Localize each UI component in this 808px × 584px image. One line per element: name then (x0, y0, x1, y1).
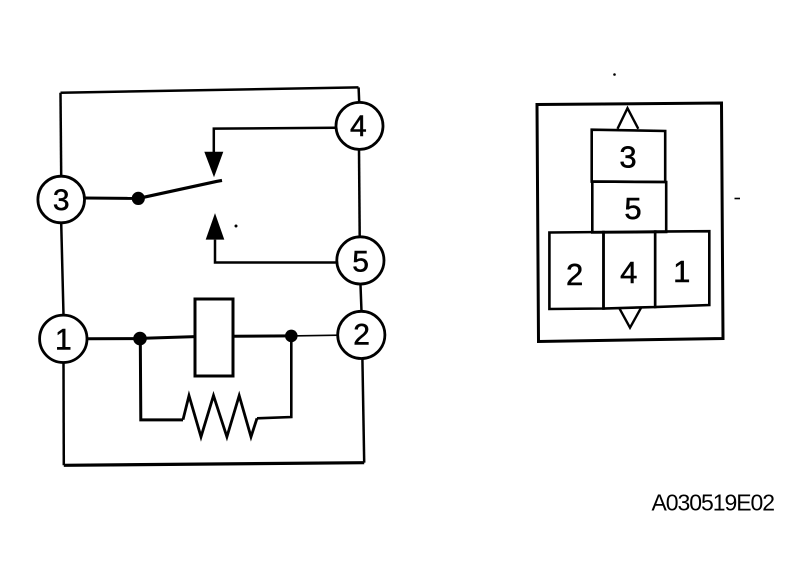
wire left rail middle (61, 223, 63, 315)
svg-text:3: 3 (53, 184, 70, 217)
wire right rail top (357, 87, 360, 102)
wire top rail (61, 87, 359, 92)
switch blade (138, 180, 222, 198)
junction dot right (285, 330, 298, 343)
cavity 3 (592, 130, 666, 182)
arrow up (contact to 5) (206, 213, 225, 240)
svg-text:1: 1 (55, 323, 72, 356)
terminal 3 (38, 176, 85, 223)
wire terminal4 branch (214, 128, 335, 152)
svg-text:2: 2 (353, 319, 370, 352)
cavity 2 (549, 232, 603, 309)
terminal 5 (337, 237, 384, 284)
terminal 4 (336, 102, 383, 149)
svg-text:5: 5 (624, 191, 641, 226)
wire bottom rail (64, 463, 364, 466)
wire resistor branch left (140, 339, 183, 420)
cavity 1 (655, 231, 709, 307)
junction dot (switch common) (132, 192, 145, 205)
svg-text:3: 3 (619, 140, 636, 175)
terminal 2 (338, 311, 385, 358)
wire coil to right junction (233, 334, 291, 337)
svg-text:4: 4 (620, 255, 637, 290)
cavity 5 (592, 182, 666, 233)
svg-text:1: 1 (673, 254, 690, 289)
wire left rail lower (62, 363, 65, 466)
connector arrow down (619, 307, 641, 328)
cavity 4 (604, 232, 656, 309)
wire terminal1 to left junction (87, 337, 140, 340)
terminal 1 (40, 315, 87, 362)
junction dot left (133, 332, 147, 346)
specks (scan noise) (613, 73, 616, 76)
connector outline (537, 103, 723, 342)
relay coil (195, 299, 233, 376)
svg-text:2: 2 (566, 257, 583, 292)
wire left rail upper (59, 93, 62, 177)
wire resistor branch right (257, 336, 291, 418)
wire terminal5 branch (215, 240, 336, 263)
svg-text:4: 4 (350, 110, 367, 143)
wire right rail below terminal 2 (362, 358, 364, 462)
connector arrow up (618, 108, 639, 129)
svg-text:5: 5 (352, 245, 369, 278)
resistor (183, 396, 257, 437)
arrow down (contact to 4) (204, 152, 223, 178)
wire left junction to coil (140, 337, 195, 339)
wire terminal4 to terminal5 (358, 150, 361, 237)
wire terminal3 to switch junction (85, 197, 139, 200)
wire right junction to terminal 2 (291, 334, 339, 337)
svg-text:A030519E02: A030519E02 (652, 490, 775, 516)
wire terminal5 to terminal2 (361, 285, 362, 312)
